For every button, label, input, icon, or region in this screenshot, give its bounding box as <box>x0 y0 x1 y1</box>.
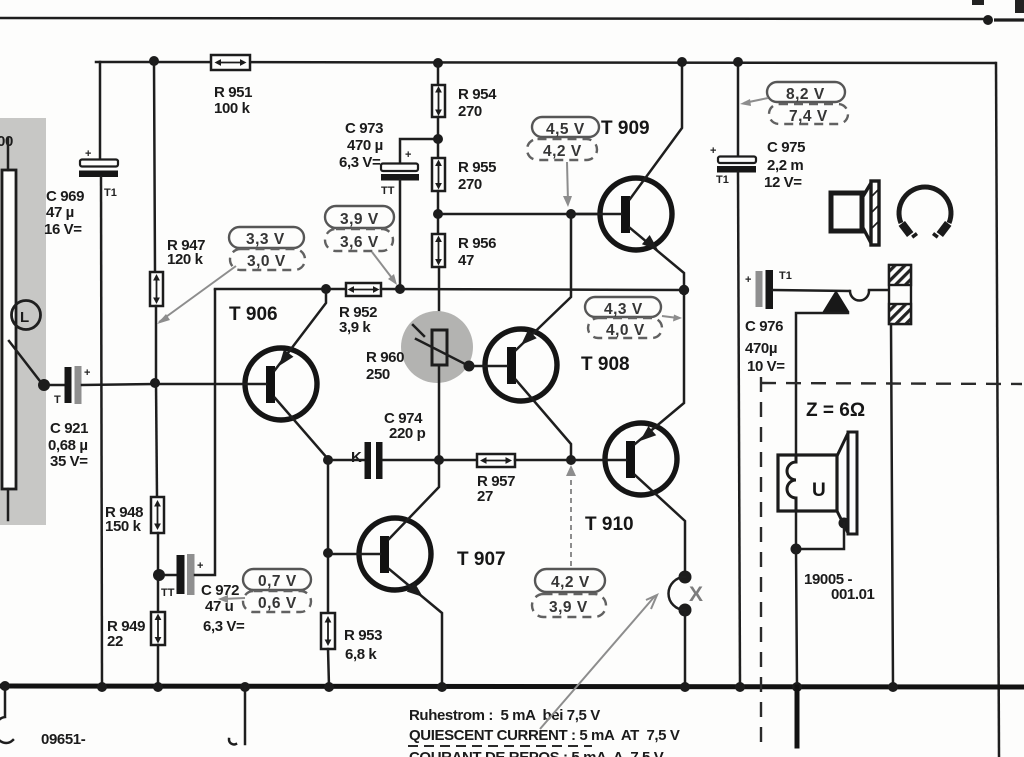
wire off-page stub below rail <box>244 687 247 744</box>
svg-text:0,68 µ: 0,68 µ <box>48 437 88 454</box>
svg-text:T1: T1 <box>716 174 729 186</box>
node ground rail left end <box>0 681 10 691</box>
resistor R949 <box>151 612 165 645</box>
wire top feed rail <box>0 18 986 19</box>
node V+ rail / R954 junction <box>433 58 443 68</box>
wire T906 collector branch to R953 <box>327 460 330 613</box>
wire T906 collector <box>275 398 328 459</box>
wire C973 top connection <box>400 139 438 164</box>
wire R960 to C974 node <box>438 365 441 460</box>
svg-text:+: + <box>85 148 91 160</box>
svg-text:R 951: R 951 <box>214 84 252 101</box>
capacitor C973 <box>381 164 418 172</box>
highlight blob behind R960 <box>401 311 473 383</box>
arrow callout to T909 base <box>567 162 568 202</box>
transistor T908 <box>485 329 557 401</box>
contact X (break with bypass arc) <box>679 571 692 584</box>
wire coil bottom stub <box>795 511 798 549</box>
wire cone tap return <box>797 523 844 549</box>
arrow callout to input wire <box>159 266 236 322</box>
svg-text:0,6 V: 0,6 V <box>258 595 297 612</box>
loudspeaker coil <box>787 455 796 511</box>
svg-text:X: X <box>689 583 703 606</box>
capacitor C921 <box>65 367 72 403</box>
svg-text:00: 00 <box>0 133 13 150</box>
node V+ rail / R947 junction <box>149 56 159 66</box>
loudspeaker cone <box>848 432 857 534</box>
node C975 rail junction <box>733 57 743 67</box>
wire triangle to speaker feed <box>796 313 848 455</box>
wire speaker ground stub below rail <box>795 687 800 746</box>
resistor R954 <box>432 85 445 117</box>
node R949 ground <box>153 682 163 692</box>
voltage callout 8,2V / 7,4V <box>767 82 845 102</box>
node T906 base input <box>150 378 160 388</box>
node T907 emitter ground <box>437 682 447 692</box>
potentiometer (volume control) <box>2 170 16 489</box>
node T910 base junction <box>566 455 576 465</box>
voltage callout 4,5V / 4,2V <box>532 117 599 137</box>
svg-text:3,9 V: 3,9 V <box>549 599 588 616</box>
voltage callout 4,3V / 4,0V <box>585 297 661 317</box>
shielded input module box (gray) <box>0 118 46 525</box>
wire C976 to jack contact <box>773 290 849 291</box>
node C969 ground <box>97 682 107 692</box>
svg-text:R 954: R 954 <box>458 86 497 103</box>
svg-text:270: 270 <box>458 176 482 193</box>
svg-text:2,2 m: 2,2 m <box>767 157 803 174</box>
svg-text:120 k: 120 k <box>167 251 204 268</box>
node off-page stub ground <box>240 682 250 692</box>
resistor R947 <box>150 272 163 306</box>
svg-text:47 µ: 47 µ <box>46 204 74 221</box>
node loudspeaker cone tap <box>839 518 850 529</box>
capacitor C975 <box>718 157 756 164</box>
node R953 ground <box>324 682 334 692</box>
node speaker return junction <box>791 544 802 555</box>
wire C974 to R957 node <box>383 459 439 462</box>
wire T909 base rail <box>438 213 622 216</box>
wire C975 to ground rail <box>738 172 740 686</box>
resistor R956 <box>432 234 445 267</box>
tick mark off-page stub <box>229 739 236 744</box>
svg-text:250: 250 <box>366 366 390 383</box>
headphone jack socket (hatched) <box>889 265 911 324</box>
wire C973 bottom to emitter rail <box>399 180 402 289</box>
wire T910 collector <box>635 475 685 571</box>
wire X to ground rail <box>684 613 687 686</box>
node C973 top junction <box>433 134 443 144</box>
wire speaker return to ground <box>796 549 797 686</box>
svg-text:R 960: R 960 <box>366 349 404 366</box>
capacitor C974 <box>328 459 365 462</box>
svg-text:T 910: T 910 <box>585 514 634 535</box>
svg-text:3,6 V: 3,6 V <box>340 234 379 251</box>
svg-text:TT: TT <box>161 587 175 599</box>
capacitor C969 <box>80 160 118 167</box>
wire T908 collector <box>516 380 571 460</box>
svg-text:T 906: T 906 <box>229 304 278 325</box>
svg-text:+: + <box>84 367 90 379</box>
wire T908 base <box>469 365 507 368</box>
headphone icon <box>899 187 952 241</box>
svg-text:K: K <box>351 449 362 466</box>
wire T910 base <box>571 459 626 462</box>
wire top feed stub to edge <box>994 18 1024 21</box>
resistor R955 <box>432 158 445 191</box>
transistor T907 <box>359 518 431 590</box>
voltage callout 4,2V / 3,9V (output) <box>535 569 605 592</box>
svg-text:150 k: 150 k <box>105 518 142 535</box>
arrow note to contact X <box>540 596 655 729</box>
svg-text:R 955: R 955 <box>458 159 496 176</box>
resistor R957 <box>477 454 515 467</box>
arrow callout to output riser <box>662 316 678 318</box>
jack switch bump <box>850 291 869 301</box>
node T906 collector / C974 <box>323 455 333 465</box>
voltage callout 3,9V / 3,6V <box>325 206 394 228</box>
svg-text:COURANT DE REPOS : 5 mA A 7,: COURANT DE REPOS : 5 mA A 7,5 V <box>409 749 664 757</box>
svg-text:Z = 6Ω: Z = 6Ω <box>806 400 865 421</box>
capacitor C976 <box>756 271 763 307</box>
svg-text:0,7 V: 0,7 V <box>258 573 297 590</box>
wire rail to R954 <box>437 63 440 85</box>
arrow callout to C972 node <box>222 598 245 599</box>
node T909 collector rail junction <box>677 57 687 67</box>
wire ground rail (bottom) <box>0 686 1024 687</box>
node C975 ground <box>735 682 745 692</box>
wire T909 emitter <box>630 228 684 290</box>
svg-text:10 V=: 10 V= <box>747 358 785 375</box>
svg-text:T 908: T 908 <box>581 354 630 375</box>
svg-text:22: 22 <box>107 633 123 650</box>
wire C921 to T906 base node <box>82 384 154 385</box>
wire potentiometer top stub <box>7 138 10 170</box>
node C973 bottom junction <box>395 284 405 294</box>
svg-text:6,3 V=: 6,3 V= <box>339 154 381 171</box>
svg-text:+: + <box>405 149 411 161</box>
wire R947 to input node <box>155 306 158 383</box>
svg-text:C 969: C 969 <box>46 188 84 205</box>
wire T910 emitter to output <box>635 290 684 444</box>
edge clip mark top right 1 <box>972 0 984 5</box>
wire jack sleeve to ground <box>891 324 893 686</box>
svg-text:3,9 k: 3,9 k <box>339 319 371 336</box>
svg-text:47: 47 <box>458 252 474 269</box>
svg-text:270: 270 <box>458 103 482 120</box>
dashed module boundary horizontal <box>761 383 1022 384</box>
potentiometer wiper <box>9 341 43 385</box>
voltage callout 0,7V / 0,6V <box>243 569 311 590</box>
voltage callout 3,3V / 3,0V <box>229 227 304 248</box>
svg-text:C 973: C 973 <box>345 120 383 137</box>
svg-text:470 µ: 470 µ <box>347 137 383 154</box>
wire right border vertical <box>996 63 999 757</box>
wire potentiometer bottom stub <box>7 489 10 520</box>
svg-text:R 956: R 956 <box>458 235 496 252</box>
node T908 emitter riser junction <box>566 209 576 219</box>
svg-text:R 953: R 953 <box>344 627 382 644</box>
svg-text:16 V=: 16 V= <box>44 221 82 238</box>
resistor R952 <box>346 283 381 296</box>
arrow callout to T910 base node <box>570 470 572 566</box>
node wiper output <box>38 379 50 391</box>
svg-text:4,0 V: 4,0 V <box>606 322 645 339</box>
node L (left channel) <box>12 301 41 330</box>
node C972 / R949 junction <box>153 569 165 581</box>
edge clip mark top right 2 <box>1015 0 1024 13</box>
wire emitter rail y289 <box>215 288 346 291</box>
node T906 emitter junction <box>321 284 331 294</box>
node output junction <box>679 285 689 295</box>
svg-text:4,2 V: 4,2 V <box>543 143 582 160</box>
node T907 base tap <box>323 548 333 558</box>
wire T909 collector to V+ rail <box>630 63 682 199</box>
svg-text:C 975: C 975 <box>767 139 805 156</box>
wire rail to R947 <box>154 62 155 272</box>
trimmer R960 <box>432 330 447 365</box>
wire V+ supply rail <box>96 62 995 63</box>
node C974 / R960 / T907 collector <box>434 455 444 465</box>
resistor R951 <box>211 55 250 70</box>
node R956 / T909 base wire junction <box>433 209 443 219</box>
wire bump to jack <box>869 289 889 292</box>
svg-text:T: T <box>54 394 61 406</box>
svg-text:35 V=: 35 V= <box>50 453 88 470</box>
transistor T909 <box>600 178 672 250</box>
node speaker ground <box>792 682 802 692</box>
wire R957 to T910 base node <box>515 459 571 462</box>
loudspeaker box <box>778 455 837 511</box>
node X ground <box>680 682 690 692</box>
jack contact triangle <box>823 290 850 312</box>
resistor R948 <box>151 497 164 533</box>
svg-text:L: L <box>20 309 29 326</box>
svg-text:T 907: T 907 <box>457 549 506 570</box>
wire T906 base <box>160 383 266 386</box>
wire T907 base <box>328 553 380 556</box>
svg-text:3,9 V: 3,9 V <box>340 211 379 228</box>
node top-right feed junction <box>983 15 993 25</box>
dashed module boundary vertical <box>760 377 762 745</box>
transistor T906 <box>245 348 317 420</box>
wire input node to R948 <box>156 383 157 497</box>
svg-text:6,8 k: 6,8 k <box>345 646 377 663</box>
svg-text:C 972: C 972 <box>201 582 239 599</box>
svg-text:TT: TT <box>381 185 395 197</box>
svg-text:7,4 V: 7,4 V <box>789 108 828 125</box>
svg-text:+: + <box>745 274 751 286</box>
wire R948 to C972 node <box>157 533 160 575</box>
wire C975 branch from V+ rail <box>737 62 740 157</box>
svg-text:27: 27 <box>477 488 493 505</box>
svg-text:C 921: C 921 <box>50 420 88 437</box>
svg-text:3,3 V: 3,3 V <box>246 231 285 248</box>
wire T906 emitter <box>275 289 326 370</box>
wire input to C921 <box>49 384 64 387</box>
node R960 wiper / T908 base <box>464 361 475 372</box>
svg-text:09651-: 09651- <box>41 731 86 748</box>
svg-text:220 p: 220 p <box>389 425 426 442</box>
wire node to R949 <box>157 575 160 612</box>
resistor R953 <box>321 613 335 649</box>
wire C969 branch from V+ rail <box>99 62 102 160</box>
svg-text:QUIESCENT CURRENT : 5 mA AT: QUIESCENT CURRENT : 5 mA AT 7,5 V <box>409 727 680 744</box>
svg-text:U: U <box>812 480 826 501</box>
svg-text:12 V=: 12 V= <box>764 174 802 191</box>
wire R955 to T909 base node <box>437 191 440 234</box>
svg-text:001.01: 001.01 <box>831 586 875 603</box>
wire R949 to ground rail <box>157 645 160 686</box>
wire R952 to C973 node <box>381 289 684 290</box>
capacitor C972 <box>164 574 177 577</box>
wire R956 to R960 <box>438 267 441 330</box>
svg-text:T1: T1 <box>779 270 792 282</box>
svg-text:C 976: C 976 <box>745 318 783 335</box>
wire T909 base <box>571 213 621 216</box>
wire node to R957 <box>439 459 477 462</box>
wire C969 to ground rail <box>101 177 102 686</box>
arrow callout to emitter rail <box>372 252 395 282</box>
arrow callout to supply wire <box>744 98 768 103</box>
svg-text:8,2 V: 8,2 V <box>786 86 825 103</box>
wire R953 to ground <box>328 649 329 686</box>
svg-text:4,5 V: 4,5 V <box>546 121 585 138</box>
svg-text:T 909: T 909 <box>601 118 650 139</box>
trimmer R960 wiper <box>416 339 469 366</box>
svg-text:3,0 V: 3,0 V <box>247 253 286 270</box>
wire C972 to feedback riser <box>195 290 215 575</box>
wire T907 collector <box>389 465 439 539</box>
node jack ground <box>888 682 898 692</box>
svg-text:4,2 V: 4,2 V <box>551 574 590 591</box>
svg-text:470µ: 470µ <box>745 340 777 357</box>
svg-text:T1: T1 <box>104 187 117 199</box>
wire T908 emitter <box>516 214 571 350</box>
transistor T910 <box>605 423 677 495</box>
svg-text:100 k: 100 k <box>214 100 251 117</box>
svg-text:+: + <box>197 560 203 572</box>
ground hook connector bottom left <box>0 686 13 743</box>
svg-text:4,3 V: 4,3 V <box>604 301 643 318</box>
speaker icon <box>831 181 879 245</box>
svg-text:+: + <box>710 145 716 157</box>
svg-text:6,3 V=: 6,3 V= <box>203 618 245 635</box>
svg-text:47 u: 47 u <box>205 598 234 615</box>
wire R954 to R955 <box>437 117 440 158</box>
wire T907 emitter <box>389 569 442 686</box>
svg-text:Ruhestrom : 5 mA bei 7,5 V: Ruhestrom : 5 mA bei 7,5 V <box>409 707 600 724</box>
